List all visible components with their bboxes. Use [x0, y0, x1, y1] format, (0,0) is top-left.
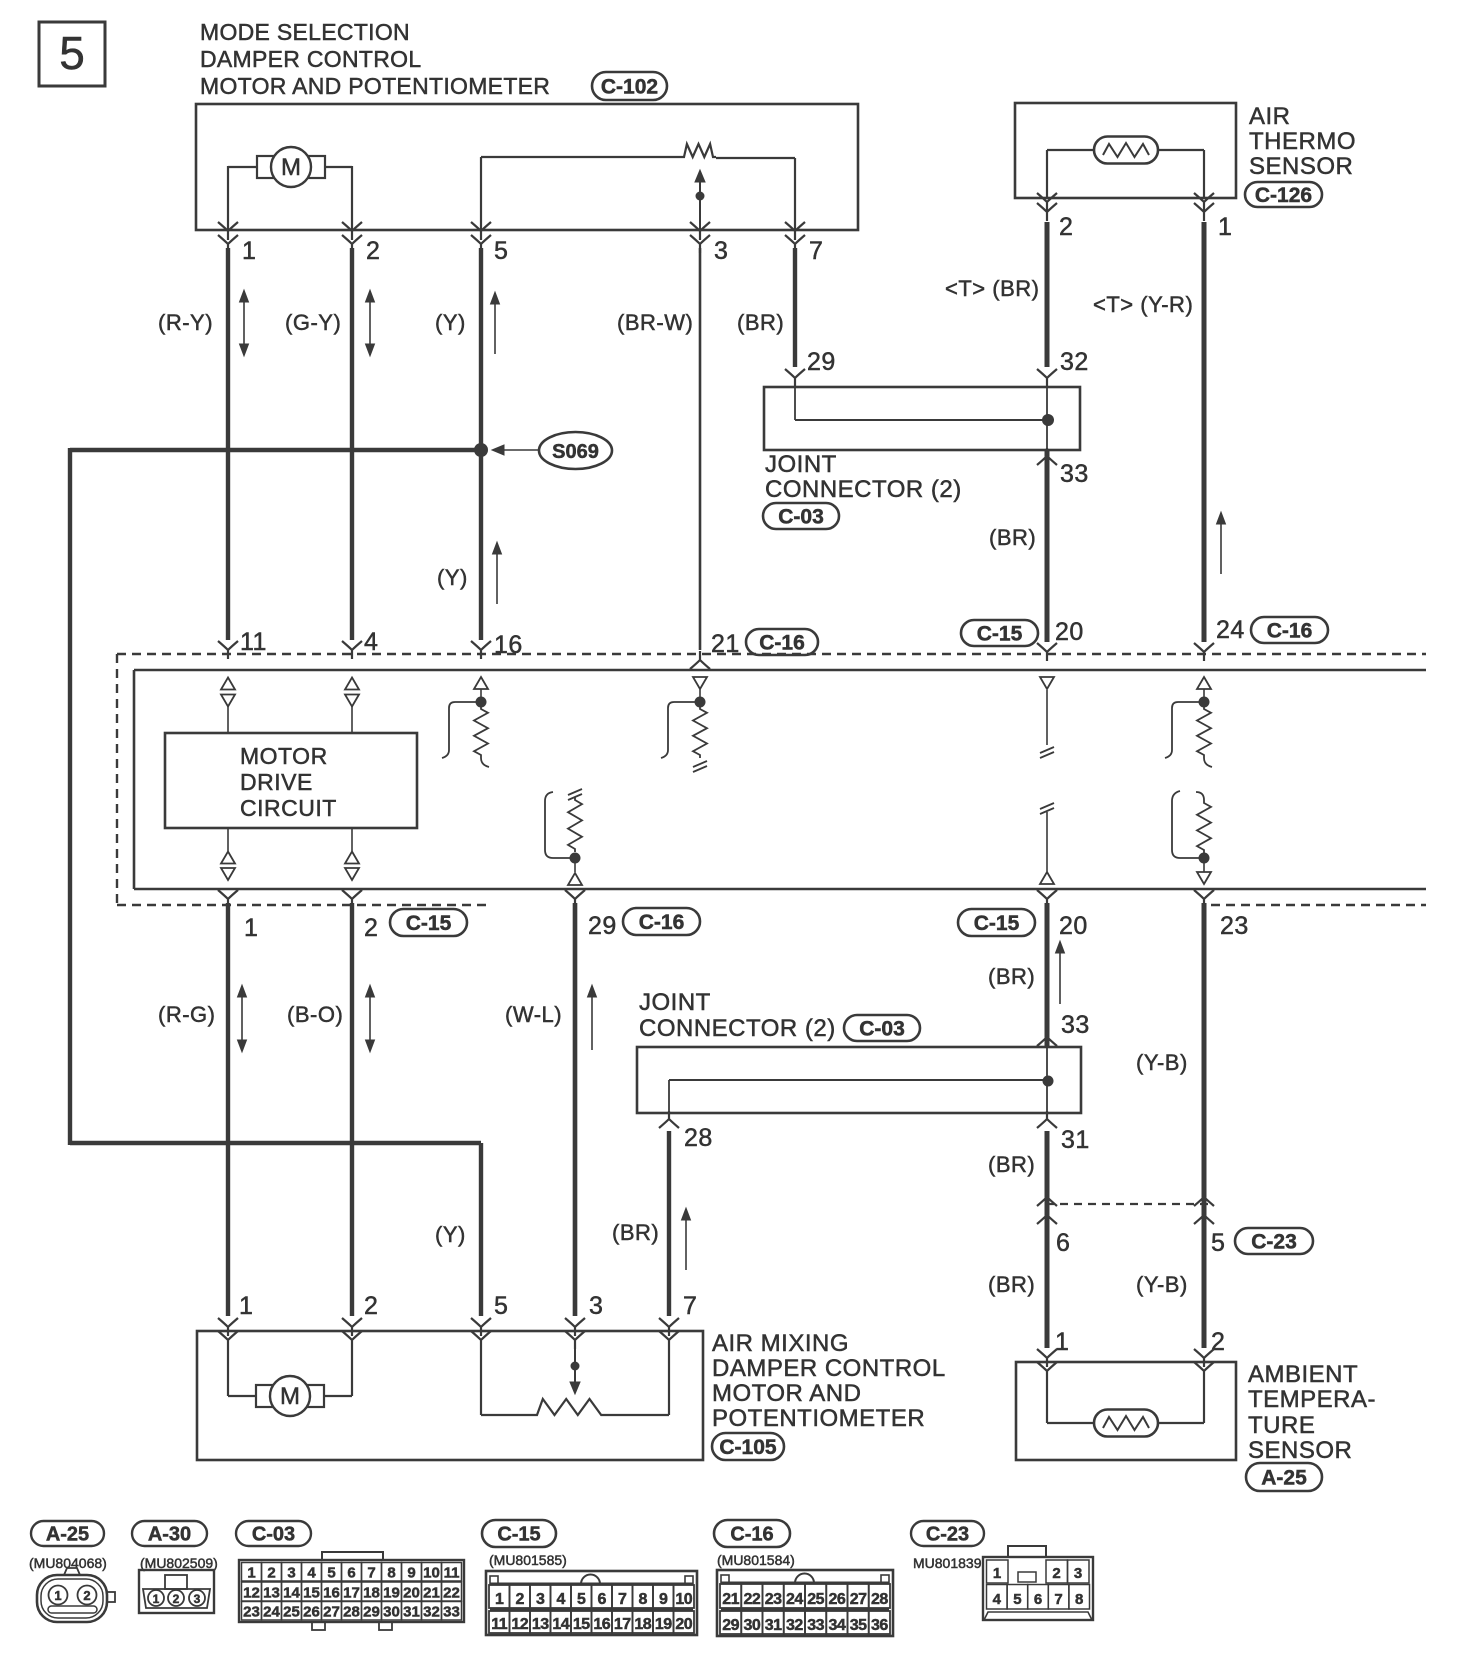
svg-text:4: 4: [993, 1591, 1002, 1608]
svg-text:TEMPERA-: TEMPERA-: [1248, 1386, 1376, 1413]
svg-text:C-16: C-16: [639, 911, 685, 934]
svg-text:14: 14: [552, 1616, 569, 1633]
svg-text:6: 6: [347, 1565, 355, 1582]
svg-text:SENSOR: SENSOR: [1248, 1437, 1352, 1464]
svg-text:THERMO: THERMO: [1249, 128, 1356, 155]
svg-text:5: 5: [327, 1565, 335, 1582]
svg-text:16: 16: [494, 631, 523, 659]
svg-text:23: 23: [765, 1591, 782, 1608]
svg-text:C-03: C-03: [252, 1524, 295, 1546]
svg-text:DRIVE: DRIVE: [240, 769, 313, 795]
svg-text:C-126: C-126: [1255, 184, 1312, 207]
svg-text:DAMPER CONTROL: DAMPER CONTROL: [712, 1355, 946, 1382]
svg-text:(W-L): (W-L): [505, 1002, 562, 1027]
svg-text:1: 1: [1055, 1328, 1069, 1356]
svg-text:7: 7: [618, 1591, 627, 1608]
svg-text:1: 1: [247, 1565, 255, 1582]
svg-text:5: 5: [494, 237, 508, 265]
svg-text:TURE: TURE: [1248, 1412, 1315, 1439]
svg-text:12: 12: [243, 1585, 260, 1602]
svg-text:13: 13: [532, 1616, 549, 1633]
svg-text:18: 18: [363, 1585, 380, 1602]
svg-text:8: 8: [387, 1565, 395, 1582]
svg-text:6: 6: [1056, 1229, 1070, 1257]
svg-text:36: 36: [871, 1617, 888, 1634]
svg-text:A-25: A-25: [1261, 1467, 1307, 1490]
svg-text:33: 33: [1060, 460, 1089, 488]
svg-text:9: 9: [407, 1565, 415, 1582]
svg-text:2: 2: [267, 1565, 275, 1582]
svg-text:A-30: A-30: [148, 1524, 191, 1546]
svg-text:4: 4: [557, 1591, 566, 1608]
svg-text:29: 29: [807, 348, 836, 376]
svg-text:3: 3: [194, 1592, 201, 1606]
svg-text:1: 1: [495, 1591, 504, 1608]
svg-text:S069: S069: [552, 441, 599, 463]
svg-text:1: 1: [242, 237, 256, 265]
svg-text:20: 20: [1059, 912, 1088, 940]
svg-text:29: 29: [363, 1604, 380, 1621]
svg-text:8: 8: [1075, 1591, 1083, 1608]
svg-text:1: 1: [54, 1588, 61, 1603]
svg-text:DAMPER CONTROL: DAMPER CONTROL: [200, 46, 421, 72]
svg-text:19: 19: [383, 1585, 400, 1602]
svg-text:(Y): (Y): [437, 565, 468, 590]
svg-text:POTENTIOMETER: POTENTIOMETER: [712, 1405, 925, 1432]
svg-text:M: M: [280, 1383, 300, 1410]
svg-text:20: 20: [675, 1616, 692, 1633]
svg-text:29: 29: [722, 1617, 739, 1634]
svg-text:35: 35: [850, 1617, 867, 1634]
svg-text:5: 5: [577, 1591, 586, 1608]
svg-text:C-15: C-15: [497, 1524, 540, 1546]
svg-text:32: 32: [786, 1617, 803, 1634]
svg-text:MOTOR: MOTOR: [240, 743, 328, 769]
svg-text:11: 11: [491, 1616, 508, 1633]
svg-text:C-15: C-15: [977, 623, 1023, 646]
svg-text:(BR): (BR): [988, 1272, 1035, 1297]
svg-text:33: 33: [443, 1604, 460, 1621]
svg-text:21: 21: [722, 1591, 739, 1608]
svg-text:5: 5: [1013, 1591, 1021, 1608]
svg-text:30: 30: [743, 1617, 760, 1634]
svg-text:AIR: AIR: [1249, 103, 1291, 130]
svg-text:2: 2: [1052, 1565, 1060, 1582]
svg-text:28: 28: [871, 1591, 888, 1608]
svg-text:15: 15: [573, 1616, 590, 1633]
svg-text:(Y): (Y): [435, 1222, 466, 1247]
svg-text:5: 5: [1211, 1229, 1225, 1257]
svg-text:(BR): (BR): [988, 1152, 1035, 1177]
svg-text:26: 26: [303, 1604, 320, 1621]
svg-text:29: 29: [588, 912, 617, 940]
svg-text:10: 10: [675, 1591, 692, 1608]
svg-text:MOTOR AND: MOTOR AND: [712, 1380, 861, 1407]
svg-text:(BR): (BR): [989, 525, 1036, 550]
svg-text:34: 34: [828, 1617, 845, 1634]
svg-text:(BR): (BR): [612, 1220, 659, 1245]
svg-text:C-105: C-105: [719, 1436, 777, 1459]
svg-text:(BR): (BR): [988, 964, 1035, 989]
svg-text:15: 15: [303, 1585, 320, 1602]
svg-text:MU801839: MU801839: [913, 1555, 982, 1571]
svg-text:1: 1: [1218, 213, 1232, 241]
svg-text:5: 5: [59, 27, 85, 79]
svg-text:31: 31: [403, 1604, 420, 1621]
svg-text:13: 13: [263, 1585, 280, 1602]
svg-text:(R-G): (R-G): [158, 1002, 215, 1027]
svg-text:C-16: C-16: [759, 632, 805, 655]
svg-text:10: 10: [423, 1565, 440, 1582]
svg-text:2: 2: [1059, 213, 1073, 241]
svg-text:19: 19: [655, 1616, 672, 1633]
svg-text:MODE SELECTION: MODE SELECTION: [200, 19, 410, 45]
svg-text:(BR-W): (BR-W): [617, 310, 693, 335]
svg-text:4: 4: [364, 628, 378, 656]
svg-text:22: 22: [443, 1585, 460, 1602]
svg-text:C-15: C-15: [974, 912, 1020, 935]
svg-text:2: 2: [83, 1588, 90, 1603]
svg-text:27: 27: [850, 1591, 867, 1608]
svg-text:5: 5: [494, 1292, 508, 1320]
svg-text:8: 8: [639, 1591, 648, 1608]
svg-text:3: 3: [536, 1591, 545, 1608]
svg-text:(Y-B): (Y-B): [1136, 1050, 1188, 1075]
svg-text:22: 22: [743, 1591, 760, 1608]
svg-text:21: 21: [423, 1585, 440, 1602]
svg-text:<T> (Y-R): <T> (Y-R): [1093, 292, 1193, 317]
svg-text:M: M: [281, 154, 301, 181]
svg-text:17: 17: [343, 1585, 360, 1602]
svg-text:<T> (BR): <T> (BR): [945, 276, 1039, 301]
svg-text:3: 3: [1074, 1565, 1082, 1582]
svg-text:11: 11: [444, 1565, 460, 1582]
svg-text:7: 7: [683, 1292, 697, 1320]
svg-text:18: 18: [634, 1616, 651, 1633]
svg-text:30: 30: [383, 1604, 400, 1621]
svg-text:3: 3: [287, 1565, 295, 1582]
svg-text:C-23: C-23: [926, 1524, 969, 1546]
svg-text:C-23: C-23: [1251, 1231, 1297, 1254]
svg-text:6: 6: [1034, 1591, 1042, 1608]
svg-text:(B-O): (B-O): [287, 1002, 343, 1027]
svg-text:16: 16: [593, 1616, 610, 1633]
svg-text:31: 31: [1061, 1126, 1090, 1154]
svg-text:MOTOR AND POTENTIOMETER: MOTOR AND POTENTIOMETER: [200, 73, 550, 99]
svg-text:24: 24: [786, 1591, 803, 1608]
svg-text:7: 7: [367, 1565, 375, 1582]
svg-text:24: 24: [1216, 616, 1245, 644]
svg-text:A-25: A-25: [46, 1524, 89, 1546]
svg-text:23: 23: [1220, 912, 1249, 940]
svg-text:2: 2: [364, 914, 378, 942]
svg-text:24: 24: [263, 1604, 280, 1621]
svg-text:AIR MIXING: AIR MIXING: [712, 1330, 849, 1357]
svg-text:6: 6: [598, 1591, 607, 1608]
svg-text:26: 26: [828, 1591, 845, 1608]
svg-text:(BR): (BR): [737, 310, 784, 335]
svg-text:21: 21: [711, 630, 740, 658]
svg-text:16: 16: [323, 1585, 340, 1602]
svg-text:C-03: C-03: [778, 506, 824, 529]
svg-text:C-16: C-16: [730, 1524, 773, 1546]
svg-text:(MU801584): (MU801584): [717, 1552, 795, 1568]
svg-text:3: 3: [714, 237, 728, 265]
svg-text:1: 1: [239, 1292, 253, 1320]
svg-text:25: 25: [807, 1591, 824, 1608]
svg-text:33: 33: [807, 1617, 824, 1634]
svg-text:12: 12: [511, 1616, 528, 1633]
svg-text:1: 1: [993, 1565, 1001, 1582]
svg-text:27: 27: [323, 1604, 340, 1621]
svg-text:SENSOR: SENSOR: [1249, 153, 1353, 180]
svg-text:CONNECTOR (2): CONNECTOR (2): [765, 476, 962, 503]
svg-text:(MU802509): (MU802509): [140, 1555, 218, 1571]
svg-text:25: 25: [283, 1604, 300, 1621]
svg-text:AMBIENT: AMBIENT: [1248, 1361, 1358, 1388]
svg-text:(Y-B): (Y-B): [1136, 1272, 1188, 1297]
svg-text:2: 2: [173, 1592, 180, 1606]
svg-text:CONNECTOR (2): CONNECTOR (2): [639, 1015, 836, 1042]
svg-text:32: 32: [1060, 348, 1089, 376]
svg-text:C-16: C-16: [1267, 620, 1313, 643]
svg-text:7: 7: [1054, 1591, 1062, 1608]
svg-text:4: 4: [307, 1565, 316, 1582]
svg-text:28: 28: [684, 1124, 713, 1152]
svg-text:2: 2: [516, 1591, 525, 1608]
svg-text:20: 20: [403, 1585, 420, 1602]
svg-text:CIRCUIT: CIRCUIT: [240, 795, 337, 821]
svg-text:(MU801585): (MU801585): [489, 1552, 567, 1568]
svg-text:31: 31: [765, 1617, 782, 1634]
svg-text:2: 2: [366, 237, 380, 265]
svg-text:1: 1: [153, 1592, 160, 1606]
svg-text:14: 14: [283, 1585, 300, 1602]
svg-text:(R-Y): (R-Y): [158, 310, 213, 335]
svg-text:32: 32: [423, 1604, 440, 1621]
svg-text:3: 3: [589, 1292, 603, 1320]
svg-text:(G-Y): (G-Y): [285, 310, 341, 335]
svg-text:2: 2: [1211, 1328, 1225, 1356]
svg-text:2: 2: [364, 1292, 378, 1320]
svg-text:1: 1: [244, 914, 258, 942]
svg-text:20: 20: [1055, 618, 1084, 646]
svg-text:11: 11: [240, 628, 267, 656]
svg-text:(Y): (Y): [435, 310, 466, 335]
svg-text:7: 7: [809, 237, 823, 265]
svg-text:JOINT: JOINT: [765, 451, 837, 478]
svg-text:JOINT: JOINT: [639, 989, 711, 1016]
svg-text:C-03: C-03: [859, 1018, 905, 1041]
svg-text:28: 28: [343, 1604, 360, 1621]
svg-text:C-102: C-102: [601, 76, 658, 99]
svg-text:33: 33: [1061, 1011, 1090, 1039]
svg-text:C-15: C-15: [406, 912, 452, 935]
svg-text:23: 23: [243, 1604, 260, 1621]
svg-text:17: 17: [614, 1616, 631, 1633]
svg-text:9: 9: [659, 1591, 668, 1608]
